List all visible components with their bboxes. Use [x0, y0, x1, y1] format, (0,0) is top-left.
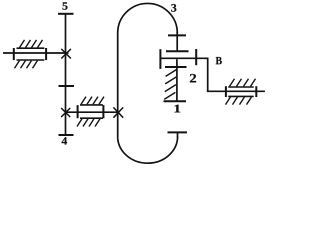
gear 2-1 axis line [176, 59, 178, 101]
mesh cross X1 at shaft5/shaft [61, 49, 71, 59]
bearing B top line [228, 86, 254, 88]
bearing A2 left tick [77, 105, 79, 118]
bearing A2 bottom hatch [77, 119, 100, 127]
shaft B left gear tick [159, 49, 161, 69]
carrier bottom-right tick [168, 131, 188, 133]
label 2 [190, 74, 196, 82]
bearing A2 top line [80, 104, 103, 106]
label B [216, 57, 222, 64]
mesh cross X3 at carrier [113, 107, 123, 117]
carrier bottom-right stub [177, 132, 179, 137]
shaft 4-5 vertical line [65, 14, 67, 135]
bearing A1 bottom hatch [15, 61, 38, 69]
gear 2 tick [165, 66, 187, 68]
carrier top arc [118, 3, 178, 33]
gear 5 top tick [58, 13, 74, 15]
bearing A2 bottom line [80, 117, 103, 119]
wire: middle horizontal shaft [66, 111, 119, 113]
gear on shaft mid tick [59, 85, 75, 87]
shaft B output horizontal [207, 90, 265, 92]
bearing B right tick [255, 86, 257, 97]
bearing A1 top hatch [20, 40, 43, 48]
bearing A2 right tick [102, 105, 104, 118]
gear 1 fixed hatch [164, 69, 177, 99]
carrier bottom arc [118, 137, 178, 163]
bearing B bottom line [228, 95, 254, 97]
bearing A1 right tick [45, 48, 47, 60]
bearing A1 left tick [13, 48, 15, 60]
bearing A1 bottom line [17, 59, 45, 61]
shaft B long line [160, 57, 208, 59]
label 5 [62, 2, 67, 9]
shaft B elbow vertical [207, 58, 209, 91]
gear 3 hub tick [168, 34, 186, 36]
gear 1 tick [164, 100, 187, 102]
bearing B bottom hatch [226, 97, 252, 105]
label 3 [171, 4, 176, 12]
bearing A1 top line [17, 47, 45, 49]
carrier left line [117, 33, 119, 139]
shaft B right gear tick [195, 49, 197, 65]
gear 4 bottom tick [59, 134, 74, 136]
label 1 [175, 105, 181, 113]
bearing A2 top hatch [81, 97, 104, 105]
wire: top-left horizontal shaft [3, 52, 69, 54]
bearing B left tick [225, 86, 227, 97]
bearing B top hatch [230, 79, 256, 87]
gear 3 rim tick [166, 50, 189, 52]
label 4 [62, 137, 68, 144]
mesh cross X2 [61, 108, 70, 117]
gear 3 axis line [176, 32, 178, 51]
